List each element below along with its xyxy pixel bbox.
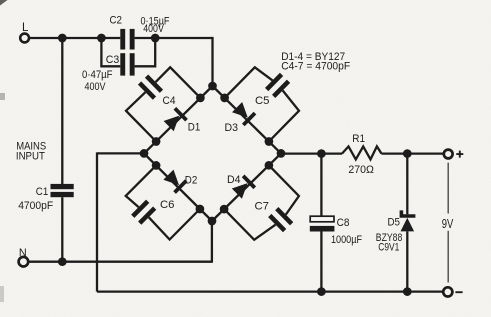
svg-text:D1: D1 [188,122,201,134]
wire left rail corner down [96,152,98,291]
wire bottom rail [97,290,443,292]
node C5 bump junction near TR start [220,94,229,103]
wire bridge edge BR (diode D4 edge) [212,153,281,221]
svg-text:9V: 9V [442,217,454,231]
wire C8 bottom lead [320,232,322,292]
node C4 bump junction near TL start [152,137,161,146]
wire C1 bottom lead [61,197,63,262]
zener diode D5 [400,210,416,217]
node junction D5 on bottom rail [403,287,412,296]
svg-text:C4-7 = 4700pF: C4-7 = 4700pF [281,61,350,73]
node junction C3 right branch on top rail [151,34,160,43]
label minus sign [455,291,462,293]
svg-text:C9V1: C9V1 [378,242,399,254]
wire bridge left vertex to left rail corner [97,152,144,154]
node junction C3 left branch on top rail [97,34,106,43]
svg-text:D4: D4 [227,174,241,186]
wire C8 top lead [320,154,322,217]
svg-text:C2: C2 [110,15,123,27]
node junction C1 branch on top rail [58,34,67,43]
svg-text:C7: C7 [255,201,270,213]
svg-text:D5: D5 [388,217,401,229]
svg-text:R1: R1 [352,133,365,145]
node C4 bump junction near TL end [196,94,205,103]
node junction C1 on N wire [58,257,67,266]
wire L terminal to C2 left plate (top rail) [29,37,120,39]
capacitor C2 [120,29,125,50]
svg-text:0·47µF: 0·47µF [82,69,113,81]
wire C3 right lead [135,38,156,66]
svg-text:D3: D3 [225,122,239,134]
svg-text:INPUT: INPUT [16,151,45,163]
wire 9V indicator line upper [447,163,449,214]
node bridge right vertex [277,149,286,158]
node C6 bump junction near LB start [152,161,161,170]
wire bridge edge TL (diode D1 edge) [144,86,213,153]
node junction D5 on positive rail [403,149,412,158]
capacitor C8 (electrolytic, open top plate) [310,216,334,222]
wire top corner down to bridge top vertex [211,37,213,86]
node C5 bump junction near TR end [265,137,274,146]
svg-text:400V: 400V [85,81,107,93]
svg-text:C3: C3 [106,54,120,66]
capacitor C5 [265,73,290,98]
diode D3 [231,101,256,126]
wire capacitor C7 bump path [224,209,275,240]
svg-text:C1: C1 [36,186,49,198]
svg-text:1000µF: 1000µF [331,234,362,246]
node junction C8 on bottom rail [317,287,326,296]
node bridge left vertex [140,149,149,158]
wire capacitor C4 bump path [126,92,156,141]
wire bridge right vertex to R1 [281,152,342,154]
svg-text:C5: C5 [255,95,270,107]
node C7 bump junction near BR end [265,161,274,170]
node bridge bottom vertex [208,217,217,226]
svg-text:C4: C4 [163,95,176,107]
diode D4 [231,175,256,200]
wire D5 top lead [406,154,408,215]
capacitor C7 [268,207,293,232]
svg-text:4700pF: 4700pF [18,200,53,212]
wire C3 left lead [101,38,120,66]
node C6 bump junction near LB end [196,205,205,214]
svg-text:L: L [22,22,29,34]
capacitor C4 [138,74,163,99]
wire bridge edge LB (diode D2 edge) [144,153,212,221]
node junction C8 on positive rail [317,149,326,158]
node C7 bump junction near BR start [220,205,229,214]
label plus sign [456,151,463,158]
resistor R1 [342,146,382,159]
paper smudge left edge [0,93,5,100]
node bridge top vertex [208,82,217,91]
terminal N [19,257,29,267]
terminal positive output [444,150,453,159]
terminal negative output [443,287,452,296]
wire R1 to positive terminal [382,152,444,154]
capacitor C1 [51,184,74,189]
wire capacitor C6 bump path [126,165,156,207]
wire N terminal to bottom vertex corner [29,261,212,263]
diode D1 [163,107,188,132]
capacitor C3 [120,53,125,75]
wire 9V indicator line lower [447,231,449,283]
svg-text:270Ω: 270Ω [348,164,374,176]
wire C1 top lead [61,38,63,184]
svg-text:N: N [19,247,27,259]
svg-text:D2: D2 [185,175,198,187]
svg-text:C6: C6 [160,199,175,211]
wire bridge edge TR (diode D3 edge) [213,86,282,153]
wire capacitor C5 bump path [225,67,273,98]
capacitor C6 [131,200,156,225]
wire N rail corner up to bridge bottom vertex [211,221,213,263]
svg-text:C8: C8 [337,217,350,229]
wire D5 bottom lead [406,231,408,291]
paper smudge top-left corner [0,0,8,6]
wire C2 right plate to top corner (top rail) [135,37,213,39]
diode D2 [163,169,188,194]
terminal L [20,34,29,43]
svg-text:400V: 400V [143,23,164,35]
